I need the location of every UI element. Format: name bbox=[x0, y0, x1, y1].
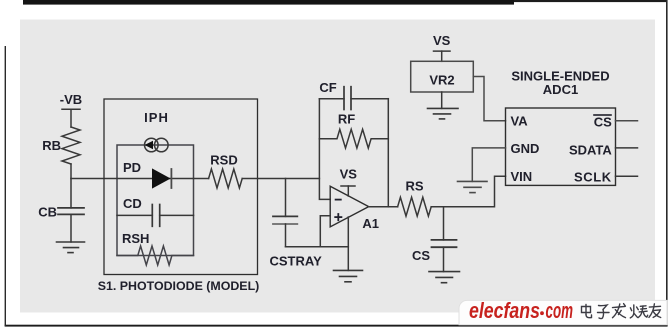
ground at ADC GND bbox=[458, 181, 488, 192]
svg-text:RF: RF bbox=[338, 112, 355, 127]
发 bbox=[613, 304, 626, 318]
feedback right rail bbox=[387, 99, 389, 207]
svg-text:RSH: RSH bbox=[122, 231, 149, 246]
op-amp minus sign bbox=[335, 199, 342, 201]
wire RS to VIN riser bbox=[431, 176, 505, 207]
regulator VR2 bbox=[411, 61, 474, 92]
capacitor CB bbox=[58, 179, 84, 243]
svg-text:SDATA: SDATA bbox=[569, 142, 612, 157]
友 bbox=[649, 304, 661, 318]
svg-text:RS: RS bbox=[405, 179, 423, 194]
capacitor CF bbox=[319, 87, 388, 110]
wire RB to node bbox=[70, 164, 72, 179]
wire GND pin to ground bbox=[472, 148, 505, 182]
svg-text:elecfans: elecfans bbox=[469, 298, 540, 323]
power VS at op-amp bbox=[341, 186, 355, 196]
svg-text:VS: VS bbox=[433, 33, 451, 48]
op-amp plus sign bbox=[334, 213, 342, 221]
svg-text:com: com bbox=[546, 298, 574, 323]
resistor RB bbox=[62, 127, 80, 164]
ADC1 box bbox=[506, 108, 616, 185]
resistor RSD bbox=[209, 169, 243, 188]
wire box to RSD bbox=[194, 178, 209, 180]
svg-text:VIN: VIN bbox=[511, 169, 533, 184]
svg-text:RSD: RSD bbox=[210, 153, 237, 168]
capacitor CD bbox=[117, 205, 194, 227]
svg-text:SCLK: SCLK bbox=[574, 170, 612, 185]
ground below VR2 bbox=[428, 108, 459, 119]
svg-text:VR2: VR2 bbox=[429, 73, 454, 88]
op-amp A1 bbox=[330, 186, 369, 227]
inner model loop bbox=[117, 145, 194, 256]
capacitor CS bbox=[432, 207, 457, 272]
node -VB terminal bbox=[62, 109, 80, 127]
wire CSTRAY/plus-input to ground rail bbox=[286, 246, 349, 248]
logo chinese 电子发烧友 bbox=[582, 304, 661, 319]
ground below CB bbox=[57, 242, 85, 253]
logo panel bbox=[459, 300, 667, 324]
capacitor CSTRAY bbox=[273, 179, 297, 247]
wire VR2 to ground bbox=[441, 92, 443, 108]
photodiode model box S1 bbox=[104, 99, 258, 275]
电 bbox=[582, 305, 592, 318]
wire RSD to summing node bbox=[242, 178, 319, 180]
svg-text:CS: CS bbox=[412, 248, 430, 263]
svg-text:IPH: IPH bbox=[144, 110, 169, 125]
svg-text:GND: GND bbox=[511, 141, 540, 156]
svg-text:VS: VS bbox=[340, 167, 358, 182]
svg-text:CSTRAY: CSTRAY bbox=[270, 254, 323, 269]
wire VR2 output to VA pin bbox=[473, 77, 505, 121]
wire SCLK stub bbox=[616, 175, 638, 177]
wire output to RS bbox=[369, 206, 398, 208]
烧 bbox=[630, 305, 647, 318]
svg-text:A1: A1 bbox=[362, 216, 379, 231]
power VS at VR2 bbox=[434, 51, 451, 61]
wire op-amp V- to ground bbox=[347, 217, 349, 270]
wire SDATA stub bbox=[616, 147, 638, 149]
logo elecfans.com bbox=[469, 298, 573, 323]
wire PD branch bbox=[117, 178, 194, 180]
wire plus input bbox=[320, 216, 330, 247]
svg-text:S1. PHOTODIODE (MODEL): S1. PHOTODIODE (MODEL) bbox=[98, 279, 260, 293]
ground below CS bbox=[429, 272, 460, 283]
resistor RSH (bottom edge of loop) bbox=[117, 246, 194, 265]
feedback left rail bbox=[319, 99, 330, 200]
svg-text:PD: PD bbox=[123, 160, 141, 175]
svg-text:-VB: -VB bbox=[60, 92, 82, 107]
current source IPH bbox=[145, 138, 169, 152]
ground below op-amp bbox=[334, 270, 363, 281]
wire CS stub bbox=[616, 120, 638, 122]
wire main node to photodiode box bbox=[71, 178, 117, 180]
resistor RS bbox=[398, 197, 432, 216]
resistor RF bbox=[319, 129, 388, 148]
子 bbox=[598, 305, 610, 319]
svg-text:CB: CB bbox=[38, 205, 57, 220]
svg-text:ADC1: ADC1 bbox=[543, 82, 578, 97]
svg-text:CD: CD bbox=[123, 196, 142, 211]
svg-text:CS: CS bbox=[594, 115, 612, 130]
photodiode PD bbox=[152, 168, 171, 188]
svg-text:VA: VA bbox=[511, 114, 529, 129]
svg-text:CF: CF bbox=[319, 80, 336, 95]
svg-text:RB: RB bbox=[42, 138, 61, 153]
